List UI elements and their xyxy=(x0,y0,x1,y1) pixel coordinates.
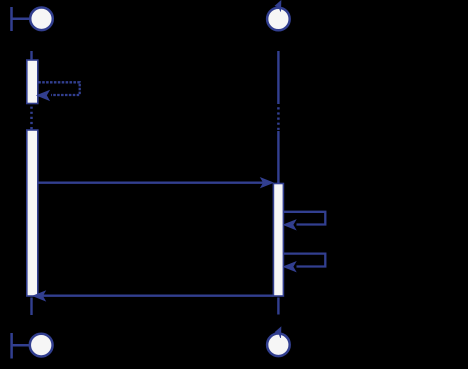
control icon arrow (top) xyxy=(275,1,281,12)
control object icon top-right xyxy=(267,8,290,31)
boundary actor icon bottom-left xyxy=(12,333,53,359)
self message 2 (right) loop xyxy=(284,254,325,267)
lifeline right upper segment xyxy=(277,51,279,104)
arrowhead of return message xyxy=(34,292,45,301)
self message 1 (right) loop xyxy=(284,212,325,225)
lifeline right mid segment xyxy=(277,131,279,184)
control object icon bottom-right xyxy=(267,334,290,357)
activation bar 2 (left) xyxy=(27,130,38,296)
lifeline left top segment xyxy=(30,51,32,61)
control icon arrow (bottom) xyxy=(275,327,281,338)
dashed self-message on left xyxy=(38,82,79,95)
activation bar (right) xyxy=(273,184,283,297)
lifeline right bottom segment xyxy=(277,298,279,315)
dotted lifeline gap (right) xyxy=(277,107,280,131)
activation bar 1 (left) xyxy=(27,60,38,104)
arrowhead self message 2 xyxy=(284,262,295,271)
arrowhead self message 1 xyxy=(284,221,295,230)
arrowhead of dashed self-message xyxy=(38,91,49,100)
arrowhead of call message xyxy=(261,178,272,187)
boundary actor icon top-left xyxy=(12,7,53,31)
lifeline left bottom segment xyxy=(30,298,32,316)
dotted lifeline gap (left) xyxy=(30,107,33,130)
return message arrow right to left xyxy=(41,295,273,297)
call message arrow left to right xyxy=(38,182,265,184)
